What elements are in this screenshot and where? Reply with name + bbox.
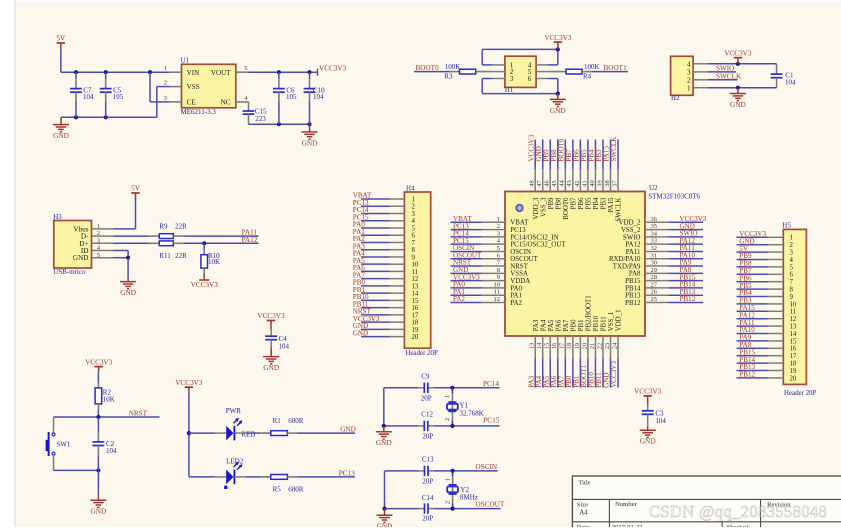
- svg-text:PA15: PA15: [608, 197, 615, 213]
- wire U2 pin 5: [451, 250, 482, 252]
- svg-text:R9: R9: [159, 222, 168, 230]
- svg-text:C14: C14: [422, 494, 434, 502]
- node PB15: [680, 273, 696, 281]
- node PA1: [353, 228, 365, 236]
- wire H4 pin 10: [361, 263, 390, 265]
- svg-text:1: 1: [412, 196, 415, 203]
- svg-text:24: 24: [611, 342, 618, 349]
- svg-text:GND: GND: [120, 288, 136, 297]
- node PB8: [739, 260, 752, 268]
- svg-text:40: 40: [589, 180, 596, 187]
- wire U2 pin 13: [534, 359, 536, 388]
- node NRST: [129, 410, 148, 418]
- node VBAT: [353, 192, 372, 200]
- wire H5 pin 18: [737, 362, 768, 364]
- wire U2 pin 32: [668, 250, 703, 252]
- svg-text:H2: H2: [671, 94, 680, 102]
- wire D- to R9: [113, 235, 149, 237]
- node PB10: [588, 372, 596, 388]
- node VCC3V3: [739, 230, 766, 238]
- svg-text:VCC3V3: VCC3V3: [85, 358, 113, 366]
- svg-text:SW1: SW1: [56, 441, 71, 449]
- svg-text:U2: U2: [649, 184, 658, 192]
- svg-text:14: 14: [412, 291, 419, 298]
- node PA10: [680, 251, 696, 259]
- svg-text:12: 12: [412, 276, 419, 283]
- node PB3: [739, 297, 752, 305]
- svg-text:PB11: PB11: [601, 316, 608, 332]
- wire H2 pin4 to VCC3V3 and C1: [708, 62, 777, 66]
- wire NRST net: [54, 404, 160, 419]
- node PB6: [739, 274, 752, 282]
- node OSCIN: [453, 244, 474, 252]
- svg-text:15: 15: [412, 298, 419, 305]
- svg-text:PB12: PB12: [739, 371, 755, 379]
- node VCC3V3: [318, 64, 347, 75]
- svg-text:PB14: PB14: [625, 285, 641, 292]
- svg-text:PA12: PA12: [625, 242, 641, 249]
- svg-text:GND: GND: [376, 438, 392, 447]
- svg-text:5: 5: [790, 264, 794, 271]
- svg-text:PB10: PB10: [593, 315, 600, 331]
- resistor R1 680R: [271, 417, 304, 435]
- power port VCC3V3: [175, 379, 203, 391]
- svg-text:NRST: NRST: [510, 263, 528, 270]
- wire U2 pin 14: [542, 359, 544, 388]
- svg-text:2: 2: [445, 418, 451, 421]
- node GND: [739, 237, 754, 245]
- svg-text:PB12: PB12: [625, 300, 641, 307]
- svg-text:4: 4: [412, 218, 416, 225]
- wire H5 pin 9: [737, 296, 768, 298]
- svg-text:680R: 680R: [288, 486, 304, 494]
- wire U2 pin 22: [602, 359, 604, 388]
- svg-text:PB3: PB3: [601, 197, 608, 209]
- wire C2 to ground: [97, 470, 99, 494]
- node BOOT0: [416, 64, 440, 72]
- svg-text:20P: 20P: [422, 515, 433, 523]
- svg-text:VSS_1: VSS_1: [608, 311, 615, 331]
- svg-text:6: 6: [528, 75, 532, 83]
- svg-text:PB8: PB8: [555, 197, 562, 209]
- ground: [90, 494, 106, 516]
- svg-text:31: 31: [651, 252, 658, 259]
- wire H4 pin 4: [361, 220, 390, 222]
- wire LED feed: [187, 391, 191, 477]
- svg-text:PA0: PA0: [510, 285, 522, 292]
- svg-text:22R: 22R: [175, 222, 187, 230]
- svg-text:45: 45: [551, 180, 558, 187]
- svg-text:14: 14: [790, 331, 797, 338]
- wire U2 pin 12: [451, 301, 482, 303]
- svg-text:R4: R4: [583, 73, 592, 81]
- svg-text:PC13: PC13: [339, 469, 355, 477]
- svg-text:OSCIN: OSCIN: [476, 463, 498, 471]
- svg-text:22: 22: [596, 343, 603, 350]
- wire U2 pin 34: [668, 236, 703, 238]
- wire U2 pin 29: [668, 272, 703, 274]
- svg-text:3: 3: [164, 95, 167, 102]
- header H1: [492, 56, 547, 94]
- svg-text:RXD/PA10: RXD/PA10: [609, 256, 641, 263]
- wire U2 pin 28: [668, 280, 703, 282]
- svg-text:GND: GND: [640, 437, 656, 446]
- svg-text:VCC3V3: VCC3V3: [610, 361, 618, 388]
- svg-text:ME6211-3.3: ME6211-3.3: [181, 108, 217, 116]
- svg-text:100K: 100K: [584, 63, 600, 71]
- wire LED2 to R5: [262, 476, 271, 478]
- svg-text:VSS: VSS: [187, 83, 200, 91]
- svg-text:2: 2: [687, 77, 691, 85]
- svg-text:7: 7: [790, 279, 794, 286]
- crystal Y1 32.768K: [445, 388, 484, 426]
- ground: [120, 278, 136, 297]
- svg-text:1: 1: [790, 235, 793, 242]
- wire U2 pin 21: [594, 359, 596, 388]
- node NRST: [353, 308, 372, 316]
- wire H5 pin 10: [737, 303, 768, 305]
- svg-text:GND: GND: [550, 106, 566, 115]
- power port VCC3V3: [257, 312, 285, 330]
- svg-text:VCC3V3: VCC3V3: [257, 312, 285, 320]
- svg-text:Title: Title: [578, 479, 590, 486]
- svg-text:VIN: VIN: [187, 69, 200, 77]
- node PA11: [739, 319, 755, 327]
- node PB12: [739, 371, 755, 379]
- svg-text:R3: R3: [444, 73, 453, 81]
- node SWIO: [708, 65, 736, 73]
- node PA0: [453, 281, 465, 289]
- node PA2: [353, 235, 365, 243]
- wire U2 pin 18: [572, 359, 574, 388]
- wire PC15 net: [382, 388, 500, 428]
- node VCC3V3: [610, 361, 618, 388]
- svg-text:10: 10: [412, 262, 419, 269]
- svg-text:17: 17: [559, 342, 566, 349]
- wire H4 pin 17: [361, 314, 390, 316]
- wire H4 pin 6: [361, 234, 390, 236]
- node PB0: [353, 279, 366, 287]
- wire U2 pin 8: [451, 272, 482, 274]
- svg-text:9: 9: [412, 254, 416, 261]
- svg-text:23: 23: [604, 343, 611, 350]
- power port VCC3V3: [634, 388, 662, 405]
- ground: [730, 88, 746, 109]
- svg-text:VDD_1: VDD_1: [616, 309, 623, 331]
- node PA3: [353, 242, 365, 250]
- wire U2 pin 33: [668, 243, 703, 245]
- wire VCC3V3 to R2: [97, 371, 99, 388]
- svg-text:VCC3V3: VCC3V3: [175, 379, 203, 387]
- svg-text:680R: 680R: [288, 417, 304, 425]
- node PA7: [353, 271, 365, 279]
- svg-text:100K: 100K: [445, 63, 461, 71]
- capacitor C9: [421, 373, 432, 403]
- svg-text:13: 13: [790, 324, 797, 331]
- svg-text:Header 20P: Header 20P: [406, 350, 439, 357]
- ground: [263, 348, 279, 373]
- svg-text:11: 11: [412, 269, 419, 276]
- svg-text:VCC3V3: VCC3V3: [634, 388, 662, 396]
- svg-text:GND: GND: [730, 100, 746, 109]
- wire GND pin down: [113, 256, 130, 278]
- wire U2 pin 38: [610, 140, 612, 170]
- node PA0: [353, 221, 365, 229]
- svg-text:19: 19: [412, 327, 419, 334]
- node PB8: [550, 149, 558, 162]
- power port VCC3V3: [724, 49, 752, 63]
- svg-text:2: 2: [97, 230, 100, 237]
- svg-text:104: 104: [655, 417, 666, 425]
- svg-text:6: 6: [790, 272, 794, 279]
- node PA4: [535, 375, 543, 387]
- wire H4 pin 7: [361, 241, 390, 243]
- wire U2 pin 19: [579, 359, 581, 388]
- svg-text:8: 8: [790, 287, 794, 294]
- node PB11: [353, 300, 369, 308]
- resistor R10 10K: [201, 243, 220, 273]
- wire U2 pin 47: [542, 140, 544, 170]
- resistor R4 100K: [566, 63, 600, 80]
- svg-text:16: 16: [790, 346, 797, 353]
- svg-text:U1: U1: [181, 57, 190, 65]
- wire R11 to PA12: [183, 241, 258, 245]
- node NRST: [453, 259, 472, 267]
- wire U2 pin 10: [451, 287, 482, 289]
- svg-text:1: 1: [497, 216, 500, 223]
- wire H4 pin 16: [361, 307, 390, 309]
- svg-text:BOOT1: BOOT1: [604, 64, 628, 72]
- wire H1 pin5 to R4: [547, 71, 566, 73]
- svg-text:2: 2: [497, 223, 500, 230]
- power port VCC3V3: [191, 273, 219, 289]
- wire H5 pin 19: [737, 370, 768, 372]
- svg-text:H3: H3: [53, 213, 62, 221]
- svg-text:Size: Size: [577, 502, 588, 509]
- svg-text:25: 25: [651, 296, 658, 303]
- svg-text:PC13: PC13: [510, 227, 526, 234]
- svg-text:C12: C12: [421, 411, 433, 419]
- svg-text:48: 48: [529, 180, 536, 187]
- svg-text:41: 41: [581, 180, 588, 187]
- node PA12: [739, 311, 755, 319]
- wire BOOT0 to R3: [414, 71, 449, 73]
- svg-text:VCC3V3: VCC3V3: [319, 64, 347, 72]
- svg-text:2: 2: [412, 204, 416, 211]
- svg-text:CE: CE: [187, 99, 196, 107]
- svg-text:21: 21: [589, 343, 596, 350]
- wire U2 pin 25: [668, 301, 703, 303]
- node GND: [453, 266, 468, 274]
- svg-text:R1: R1: [273, 417, 282, 425]
- wire H4 pin 1: [361, 198, 390, 200]
- ground: [550, 94, 566, 115]
- svg-text:PB7: PB7: [570, 197, 577, 209]
- svg-text:3: 3: [687, 69, 691, 77]
- svg-text:OSCOUT: OSCOUT: [476, 501, 505, 509]
- wire R9 to PA11: [183, 235, 258, 237]
- svg-text:15: 15: [790, 338, 797, 345]
- node PB5: [739, 282, 752, 290]
- svg-text:223: 223: [255, 115, 266, 123]
- svg-text:42: 42: [574, 180, 581, 187]
- node BOOT0: [558, 138, 566, 161]
- node PB1: [573, 375, 581, 388]
- capacitor C13: [422, 456, 434, 486]
- svg-text:PWR: PWR: [226, 407, 242, 415]
- wire 5V rail to U1 VIN: [61, 70, 170, 74]
- node PA10: [739, 326, 755, 334]
- svg-text:2: 2: [445, 501, 451, 504]
- svg-text:4: 4: [790, 257, 794, 264]
- svg-text:36: 36: [651, 216, 658, 223]
- svg-text:PA12: PA12: [242, 236, 258, 244]
- node VCC3V3: [453, 273, 480, 281]
- svg-text:13: 13: [529, 343, 536, 350]
- node PA11: [680, 244, 696, 252]
- node OSCOUT: [476, 501, 505, 509]
- svg-text:18: 18: [566, 343, 573, 350]
- node PB6: [573, 149, 581, 162]
- svg-text:PC15: PC15: [483, 416, 499, 424]
- wire U2 pin 36: [668, 221, 703, 223]
- svg-text:OSCOUT: OSCOUT: [510, 256, 538, 263]
- svg-text:VSS_2: VSS_2: [621, 227, 641, 234]
- svg-text:PB0: PB0: [570, 319, 577, 331]
- wire H5 pin 17: [737, 355, 768, 357]
- svg-text:43: 43: [566, 180, 573, 187]
- capacitor C3: [642, 405, 667, 427]
- header H4 Header 20P: [390, 184, 439, 357]
- wire U2 pin 31: [668, 258, 703, 260]
- node PB0: [565, 375, 573, 388]
- svg-text:PA1: PA1: [510, 293, 522, 300]
- node PB9: [542, 149, 550, 162]
- svg-text:PA3: PA3: [533, 319, 540, 331]
- svg-text:13: 13: [412, 283, 419, 290]
- svg-text:12: 12: [790, 316, 797, 323]
- svg-text:10K: 10K: [103, 396, 115, 404]
- switch SW1: [46, 417, 71, 470]
- wire H4 pin 9: [361, 256, 390, 258]
- svg-text:VBAT: VBAT: [510, 220, 529, 227]
- svg-text:GND: GND: [377, 522, 393, 527]
- svg-text:39: 39: [596, 180, 603, 187]
- wire U2 pin 39: [602, 140, 604, 170]
- power port VCC3V3: [85, 358, 113, 371]
- svg-text:SWCLK: SWCLK: [616, 197, 623, 221]
- header H5 Header 20P: [768, 221, 817, 396]
- node SWCLK: [708, 72, 742, 80]
- node PA1: [453, 288, 465, 296]
- wire H1 GND bottom: [482, 79, 560, 96]
- wire U2 pin 17: [564, 359, 566, 388]
- svg-text:1: 1: [445, 478, 451, 481]
- capacitor C2: [93, 417, 118, 470]
- wire U2 pin 11: [451, 294, 482, 296]
- wire CE to VIN: [150, 72, 170, 102]
- node PA12: [680, 237, 696, 245]
- wire H4 pin 19: [361, 328, 390, 330]
- svg-text:H5: H5: [782, 221, 791, 229]
- svg-text:5V: 5V: [131, 185, 141, 193]
- node PC13: [453, 222, 469, 230]
- wire U2 pin 35: [668, 229, 703, 231]
- node PC13: [339, 469, 355, 477]
- svg-text:104: 104: [83, 93, 94, 101]
- node PB12: [680, 295, 696, 303]
- svg-text:VSS_3: VSS_3: [540, 197, 547, 217]
- wire H4 pin 14: [361, 292, 390, 294]
- svg-text:R5: R5: [273, 486, 282, 494]
- svg-text:8: 8: [412, 247, 416, 254]
- svg-text:CSDN @qq_2083558048: CSDN @qq_2083558048: [649, 502, 827, 521]
- svg-text:11: 11: [790, 309, 797, 316]
- wire U2 pin 27: [668, 287, 703, 289]
- svg-text:PB12: PB12: [680, 295, 696, 303]
- svg-text:10: 10: [790, 301, 797, 308]
- wire U2 pin 43: [572, 140, 574, 170]
- svg-text:9: 9: [497, 274, 500, 281]
- svg-text:18: 18: [790, 361, 797, 368]
- wire U2 pin 24: [617, 359, 619, 388]
- wire H5 pin 15: [737, 340, 768, 342]
- node GND: [340, 425, 356, 433]
- node PB11: [595, 372, 603, 388]
- wire to LED2: [189, 476, 226, 478]
- svg-text:105: 105: [286, 93, 297, 101]
- wire H5 pin 12: [737, 318, 768, 320]
- svg-text:PB13: PB13: [625, 293, 641, 300]
- wire U2 pin 6: [451, 258, 482, 260]
- svg-text:LED2: LED2: [226, 457, 244, 465]
- svg-text:32: 32: [651, 245, 658, 252]
- svg-text:VSSA: VSSA: [510, 271, 528, 278]
- wire SW1 to C2 bottom: [54, 468, 101, 472]
- svg-text:VCC3V3: VCC3V3: [544, 34, 572, 42]
- wire VOUT to VCC3V3: [249, 70, 318, 74]
- resistor R3 100K: [444, 63, 492, 80]
- svg-text:8: 8: [497, 267, 500, 274]
- svg-text:A4: A4: [579, 509, 588, 516]
- capacitor C12: [421, 411, 433, 441]
- svg-text:17: 17: [412, 312, 419, 319]
- node GND: [353, 329, 368, 337]
- wire U2 pin 44: [564, 140, 566, 170]
- node VBAT: [453, 215, 472, 223]
- wire U2 pin 23: [610, 359, 612, 388]
- svg-text:1: 1: [687, 84, 691, 92]
- svg-text:104: 104: [279, 343, 290, 351]
- resistor R9 22R: [149, 222, 187, 238]
- wire U2 pin 15: [549, 359, 551, 388]
- svg-text:38: 38: [604, 180, 611, 187]
- node PB7: [565, 149, 573, 162]
- svg-text:USB-mrico: USB-mrico: [53, 268, 86, 276]
- svg-text:2: 2: [790, 242, 794, 249]
- node PC14: [453, 230, 469, 238]
- wire H4 pin 13: [361, 285, 390, 287]
- ground: [302, 124, 318, 147]
- svg-text:10: 10: [494, 281, 501, 288]
- svg-text:Y1: Y1: [460, 401, 469, 409]
- node 5V: [739, 245, 749, 253]
- svg-text:NRST: NRST: [129, 410, 148, 418]
- svg-text:PA5: PA5: [548, 319, 555, 331]
- power port VCC3V3: [544, 34, 572, 50]
- node PB13: [680, 288, 696, 296]
- resistor R2 10K: [95, 388, 115, 404]
